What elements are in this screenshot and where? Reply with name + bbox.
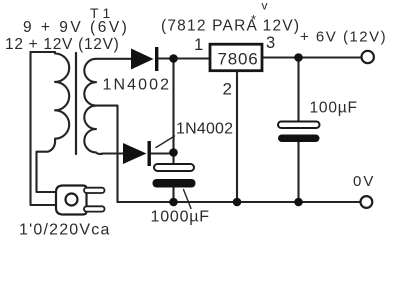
capacitor C2 100uF top plate [278,122,320,129]
plug P1 body [56,186,87,215]
svg-text:2: 2 [223,80,232,99]
junction node ground rail at pin2 [233,198,242,207]
svg-text:7806: 7806 [217,50,258,69]
wire D1 cathode to regulator input [159,57,210,59]
svg-text:3: 3 [266,34,275,52]
terminal 0V output circle [361,196,373,208]
plug P1 prong upper [84,188,105,193]
junction node after D1 [169,54,178,63]
wire D2 cathode to node [151,152,174,154]
transformer T1 secondary winding [84,59,102,154]
svg-text:12 + 12V (12V): 12 + 12V (12V) [5,36,120,53]
wire secondary bottom lead to D2 anode [102,152,123,154]
junction node D2 cathode [169,148,178,157]
svg-text:1'0/220Vca: 1'0/220Vca [19,222,111,239]
transformer T1 primary top lead wire [31,51,56,53]
wire secondary top lead to D1 anode [96,58,131,60]
svg-text:1N4002: 1N4002 [103,77,172,94]
wire +node down to 100uF [297,58,299,122]
regulator U1 7806 box [210,44,262,70]
wire regulator output to +6V terminal [263,56,362,58]
transformer T1 primary left lead wire [31,52,59,205]
svg-text:v: v [262,0,268,13]
junction node ground rail at 100uF [294,198,303,207]
capacitor C1 1000uF top plate [154,164,194,171]
wire 1000uF bottom to ground rail [172,188,174,203]
svg-text:0V: 0V [353,173,375,190]
svg-text:100µF: 100µF [310,100,358,117]
diode D1 1N4002 triangle [131,49,154,70]
svg-text:1N4002: 1N4002 [176,121,233,138]
svg-text:1000µF: 1000µF [151,209,210,226]
leader line from 1N4002 label to D2 [156,136,175,148]
diode D2 cathode bar [148,141,151,166]
wire ground rail [118,201,361,203]
wire secondary center tap to ground rail [96,106,118,202]
diode D1 cathode bar [155,47,158,71]
svg-text:(7812 PARA 12V): (7812 PARA 12V) [161,18,300,35]
transformer T1 primary winding [37,54,70,193]
leader line from 1000uF label to capacitor [184,190,192,209]
svg-text:+ 6V (12V): + 6V (12V) [300,29,387,46]
terminal +6V output circle [362,51,374,63]
capacitor C1 1000uF bottom plate [153,179,196,188]
junction node ground rail at 1000uF [169,198,178,207]
capacitor C2 100uF bottom plate [278,135,320,143]
wire regulator pin2 ground [236,71,238,202]
svg-text:9 + 9V (6V): 9 + 9V (6V) [23,19,129,36]
junction node +6V rail [294,53,303,62]
svg-text:*: * [251,12,256,27]
diode D2 1N4002 triangle [123,143,147,164]
svg-text:1: 1 [194,36,203,54]
plug P1 prong lower [84,206,105,211]
wire 100uF bottom to ground rail [297,142,299,202]
wire node vertical D1 output down to D2 cathode and 1000uF [172,59,174,165]
transformer T1 core [75,53,77,154]
plug P1 hole [66,194,78,206]
